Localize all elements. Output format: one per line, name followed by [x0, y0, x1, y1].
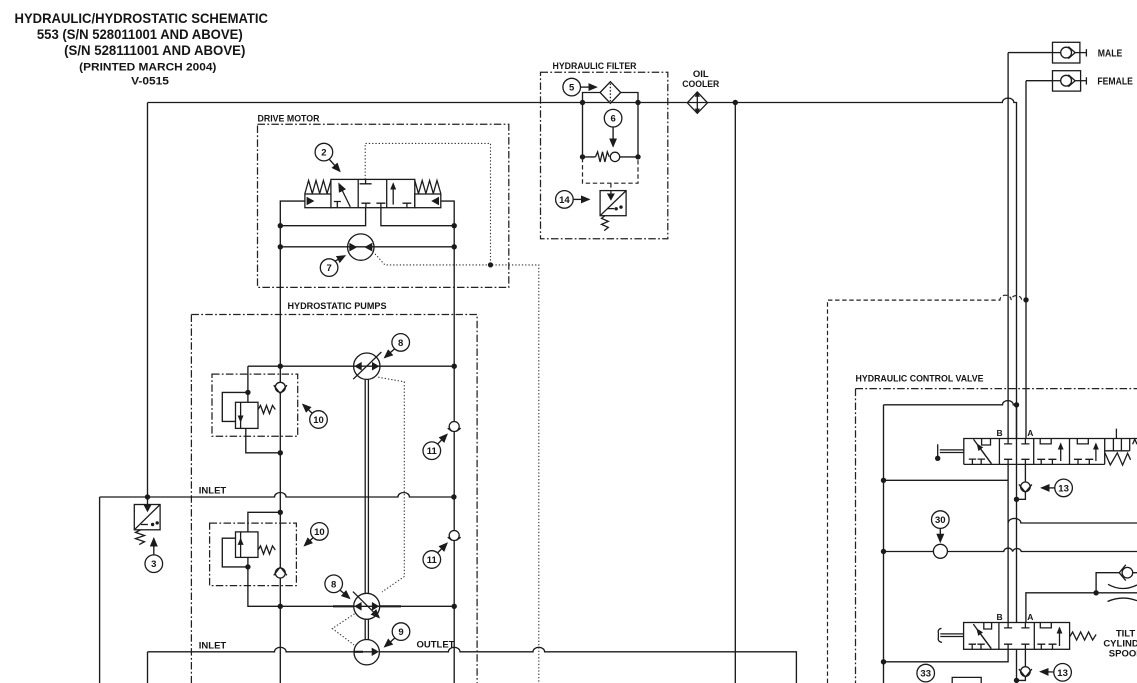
- svg-text:HYDRAULIC CONTROL VALVE: HYDRAULIC CONTROL VALVE: [856, 373, 984, 384]
- svg-text:HYDRAULIC/HYDROSTATIC SCHEMATI: HYDRAULIC/HYDROSTATIC SCHEMATIC: [15, 10, 269, 26]
- left rail vertical (drawn above as part of pilot wire) junction with relief 10a top: [247, 366, 249, 402]
- wire: relief 10b outlet down to pump 8b line: [248, 557, 280, 606]
- svg-text:V-0515: V-0515: [131, 75, 169, 87]
- node: junction main line / filter loop left: [580, 100, 585, 105]
- svg-text:7: 7: [326, 263, 331, 274]
- node: left rail / motor line: [278, 244, 283, 249]
- wire: FEMALE coupler line: [1026, 81, 1053, 439]
- svg-text:(S/N 528111001 AND ABOVE): (S/N 528111001 AND ABOVE): [64, 42, 245, 58]
- valve1 pilot tick and end spring: [1116, 429, 1137, 445]
- wire: valve2 port B down to left loop: [280, 208, 365, 226]
- valve1 box2: B and A ports: [1004, 439, 1030, 465]
- anti-cavitation check branch: [1096, 565, 1137, 593]
- relief 10b spring: [258, 546, 275, 554]
- svg-text:8: 8: [331, 579, 336, 590]
- svg-text:HYDROSTATIC PUMPS: HYDROSTATIC PUMPS: [288, 301, 387, 312]
- node: bypass left: [580, 154, 585, 159]
- svg-text:HYDRAULIC FILTER: HYDRAULIC FILTER: [553, 61, 637, 72]
- valve 2 right envelope: straight flow arrow: [393, 184, 411, 208]
- valve1 box1: crossed arrow + ports: [969, 439, 992, 465]
- valve 2 (drive control valve) body: [331, 179, 415, 207]
- valve2 box3: cup, up arrow, ports: [1037, 623, 1059, 650]
- wire: orifice line with double hop: [884, 548, 1137, 551]
- spring below valve 3: [136, 530, 145, 545]
- node: INLET / right rail: [451, 494, 456, 499]
- check valve 11b on right rail: [448, 531, 461, 541]
- wire: valve2 left pilot to left rail: [280, 201, 305, 683]
- charge pump 9: [354, 640, 379, 665]
- dotted drain from motor case: [373, 251, 539, 683]
- node: junction main line / filter loop right: [635, 100, 640, 105]
- label circle 11a with arrow: [423, 435, 447, 460]
- label circle 10a with arrow: [303, 405, 327, 429]
- node: left rail / valve2 return: [881, 659, 886, 664]
- svg-text:A: A: [1027, 428, 1033, 438]
- wire: valve2 port A down to right loop: [381, 208, 454, 226]
- wire: centre core vertical through valves: [1016, 405, 1018, 683]
- svg-text:INLET: INLET: [199, 485, 227, 496]
- node: core / check 13a outlet: [1014, 497, 1019, 502]
- relief 10a spring: [258, 405, 275, 413]
- label circle 13b with arrow: [1041, 664, 1072, 682]
- svg-text:10: 10: [313, 415, 324, 426]
- spring of bypass check valve 6: [596, 152, 610, 162]
- wire: valve2 right pilot to right rail: [441, 201, 454, 683]
- node: left rail / port B: [278, 223, 283, 228]
- label: TILT CYLINDER SPOOL: [1103, 628, 1137, 659]
- relief valve 10b body: [236, 532, 259, 558]
- svg-text:13: 13: [1057, 668, 1068, 679]
- hydrostatic pumps box (dash-dot): [191, 315, 477, 683]
- label circle 5 with arrow: [563, 78, 596, 96]
- node: dotted junction: [488, 262, 493, 267]
- check valve 6 ball: [610, 152, 619, 161]
- valve1 right spring: [1105, 453, 1131, 465]
- check valve (in 10a box) on left rail: [274, 382, 287, 393]
- valve 2 centre envelope: blocked ports: [360, 179, 386, 207]
- check valve (in 10b box) on left rail: [274, 567, 287, 578]
- relief valve 10a assembly box (dash-dot): [212, 374, 298, 436]
- wire: main pressure line from reservoir branch to couplers (hops MALE line, turns down): [148, 98, 1017, 438]
- servo dotted line pump 8a to pump 8b: [378, 377, 404, 592]
- wire: relief 10b inlet from rail: [248, 512, 280, 532]
- node: right rail / pump 8a: [452, 364, 457, 369]
- dotted trunnion link pump8b to pump9: [332, 614, 354, 645]
- svg-text:14: 14: [559, 195, 570, 206]
- svg-text:(PRINTED MARCH 2004): (PRINTED MARCH 2004): [79, 62, 216, 74]
- wire: relief 10a outlet to rail: [246, 428, 280, 452]
- orifice ball 30: [933, 544, 947, 558]
- wire: valve2 B-port return to left rail: [884, 649, 1009, 662]
- svg-text:9: 9: [398, 627, 403, 638]
- svg-text:A: A: [1027, 612, 1033, 622]
- node: rail / relief 10b inlet: [278, 510, 283, 515]
- node: left rail / pump 8a: [278, 364, 283, 369]
- label circle 13a with arrow: [1042, 479, 1073, 497]
- label circle 11b with arrow: [423, 543, 447, 568]
- svg-text:INLET: INLET: [199, 640, 227, 651]
- node: dashed line / FEMALE vertical: [1023, 297, 1028, 302]
- svg-text:FEMALE: FEMALE: [1097, 77, 1133, 88]
- label circle 10b with arrow: [305, 523, 329, 546]
- component box below (cut off): [952, 677, 981, 683]
- svg-text:B: B: [997, 428, 1003, 438]
- label circle 7 with arrow: [320, 256, 344, 277]
- label circle 14 with arrow: [556, 191, 589, 209]
- svg-text:10: 10: [314, 527, 325, 538]
- venturi restrictor arcs: [1108, 584, 1137, 601]
- wire: charge pump OUTLET line with hops: [148, 647, 797, 683]
- valve2 right spring: [1070, 632, 1097, 640]
- wire: pump 8a pressure line: [248, 365, 454, 367]
- node: INLET / reservoir branch: [145, 494, 150, 499]
- node: flow control tee: [1093, 590, 1098, 595]
- tilt spool valve body (valve 2): [964, 623, 1070, 650]
- spring below valve 14: [602, 216, 609, 231]
- filter bypass solenoid valve 14 symbol: [600, 191, 626, 216]
- label circle 8b with arrow: [325, 575, 350, 598]
- valve1 box4: cup, up arrow, ports: [1074, 439, 1096, 465]
- svg-text:SPOOL: SPOOL: [1109, 649, 1137, 660]
- svg-text:11: 11: [427, 446, 438, 457]
- MALE quick coupler: [1053, 42, 1087, 63]
- node: junction main line / reservoir drop: [733, 100, 738, 105]
- wire: lift A work line to right edge (hop over core): [1008, 518, 1137, 523]
- check valve 11a on right rail: [448, 422, 461, 432]
- wire: INLET line (charge suction) with hops: [100, 493, 454, 497]
- valve 2 right pilot box: [415, 194, 441, 208]
- relief valve 10a body: [236, 402, 259, 428]
- filter F1 diamond: [600, 82, 621, 104]
- svg-text:DRIVE MOTOR: DRIVE MOTOR: [258, 114, 320, 125]
- pump 8a (variable displacement): [353, 352, 381, 379]
- svg-text:6: 6: [610, 114, 615, 125]
- pump shaft double lines: [365, 380, 368, 640]
- check valve 13a below valve1 A port: [1017, 464, 1032, 499]
- dashed sub-box around bypass check: [583, 158, 639, 191]
- node: rail / pump 8b left: [278, 604, 283, 609]
- relief valve 10b assembly box (dash-dot): [210, 523, 297, 586]
- node: pilot junction 10a: [245, 390, 250, 395]
- title block text: [15, 10, 269, 88]
- wire: tilt work line through venturi to right edge: [1096, 592, 1137, 594]
- label circle 30 with arrow: [932, 511, 950, 542]
- label circle 3 with arrow: [145, 539, 163, 573]
- node: top line / centre core: [1014, 402, 1019, 407]
- svg-text:553 (S/N 528011001 AND ABOVE): 553 (S/N 528011001 AND ABOVE): [37, 26, 243, 42]
- valve 2 left spring: [305, 181, 331, 194]
- drive motor box (dash-dot): [258, 124, 509, 287]
- wire: lower-left corner vertical: [147, 652, 149, 683]
- svg-text:13: 13: [1058, 483, 1069, 494]
- wire: motor feed lines: [280, 246, 454, 248]
- FEMALE quick coupler: [1053, 71, 1087, 91]
- relief 10a pilot loop: [222, 392, 248, 421]
- svg-text:30: 30: [935, 515, 946, 526]
- svg-text:2: 2: [321, 148, 326, 159]
- node: core / check 13b outlet: [1014, 678, 1019, 683]
- svg-text:33: 33: [920, 669, 931, 680]
- label circle 9 with arrow: [385, 623, 410, 647]
- wire: filter loop upper: [583, 93, 639, 157]
- wire: left outer vertical: [99, 497, 101, 683]
- node: bypass right: [635, 154, 640, 159]
- valve 2 right spring: [415, 181, 441, 194]
- valve2 lever actuator: [938, 628, 963, 642]
- hydraulic filter box (dash-dot): [541, 72, 668, 239]
- drive motor M1 circle: [348, 234, 374, 260]
- lift spool valve body (valve 1): [964, 439, 1137, 465]
- wire: valve2 A port riser to flow control: [1026, 593, 1096, 623]
- svg-text:8: 8: [398, 338, 403, 349]
- label circle 33: [917, 664, 935, 682]
- svg-text:5: 5: [569, 83, 575, 94]
- hydraulic control valve box (dash-dot): [856, 389, 1137, 683]
- label circle 6 with arrow: [604, 109, 622, 146]
- oil cooler diamond: [687, 92, 707, 114]
- node: pilot junction 10b: [245, 564, 250, 569]
- label circle 8a with arrow: [385, 334, 410, 358]
- valve2 box2: B and A ports: [1004, 623, 1030, 650]
- svg-text:B: B: [997, 612, 1003, 622]
- svg-text:MALE: MALE: [1098, 48, 1123, 59]
- wire: MALE coupler line: [1008, 53, 1052, 439]
- node: rail / relief 10a outlet: [278, 450, 283, 455]
- node: left rail / valve1 return: [881, 478, 886, 483]
- relief 10b pilot loop: [222, 538, 248, 567]
- replenishing valve 3 symbol: [134, 497, 160, 530]
- valve 2 left envelope: crossed arrow: [334, 184, 351, 208]
- node: right rail / motor line: [452, 244, 457, 249]
- check valve 13b below valve2 A port: [1017, 649, 1032, 680]
- label circle 2 with arrow: [315, 143, 340, 171]
- wire: filter bypass check branch: [583, 156, 639, 158]
- wire: reservoir drop vertical at x=735: [734, 103, 736, 683]
- svg-text:COOLER: COOLER: [682, 79, 719, 90]
- pump 8b (variable displacement): [353, 592, 380, 620]
- valve2 box1: crossed arrow + ports: [969, 623, 992, 650]
- wire: control valve inlet top line with hop: [884, 401, 1017, 683]
- wire: left reservoir vertical from main line down to INLET line: [147, 103, 149, 498]
- node: right rail / pump 8b: [452, 604, 457, 609]
- dashed auxiliary boundary with hops, ends at FEMALE line: [828, 295, 1027, 683]
- svg-text:3: 3: [151, 559, 156, 570]
- valve1 box3: cup, up arrow, ports: [1037, 439, 1061, 465]
- node: right rail / port A: [452, 223, 457, 228]
- valve1 detent comb: [1113, 439, 1129, 451]
- node: left rail / orifice line: [881, 549, 886, 554]
- pilot dotted loop from valve2 top to motor drain: [365, 143, 490, 265]
- svg-text:11: 11: [427, 555, 438, 566]
- wire: pump 8b pressure line: [333, 605, 401, 607]
- valve1 lever actuator: [935, 444, 964, 461]
- wire: valve1 B-port return to left rail, tee down to valve2: [884, 464, 1009, 622]
- valve 2 left pilot box: [305, 194, 331, 208]
